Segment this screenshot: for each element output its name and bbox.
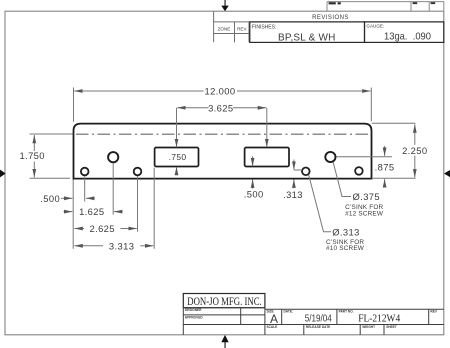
svg-text:#10 SCREW: #10 SCREW: [326, 245, 365, 252]
dim 2.625: [74, 176, 137, 231]
slot cutout left: [155, 148, 199, 167]
dim .500 left: [61, 176, 95, 249]
svg-text:.875: .875: [375, 161, 395, 172]
border centering marker top: [221, 0, 228, 11]
svg-text:APPROVED: APPROVED: [185, 315, 204, 319]
svg-text:REV: REV: [430, 310, 437, 314]
svg-text:DESIGNER: DESIGNER: [185, 308, 202, 312]
svg-text:DON-JO MFG. INC.: DON-JO MFG. INC.: [187, 296, 262, 308]
leader and note hole dia .375: [333, 162, 351, 196]
gauge box: [365, 22, 444, 43]
cropped revision row text remnants: [329, 2, 436, 4]
dim .750 slot height: [176, 167, 178, 175]
svg-text:3.625: 3.625: [208, 102, 233, 113]
centerline (dash-dot): [76, 133, 369, 135]
svg-text:1.625: 1.625: [79, 206, 104, 217]
svg-text:BP,SL & WH: BP,SL & WH: [278, 32, 336, 43]
svg-text:.500: .500: [40, 193, 60, 204]
svg-text:GAUGE:: GAUGE:: [366, 24, 384, 29]
svg-text:13ga. .090: 13ga. .090: [384, 32, 431, 43]
title block grid: [183, 308, 444, 335]
hole small 3: [134, 168, 142, 176]
svg-text:2.250: 2.250: [402, 145, 427, 156]
svg-text:FL-212W4: FL-212W4: [358, 312, 401, 324]
svg-text:REV: REV: [237, 26, 247, 31]
border centering marker left: [0, 170, 6, 178]
svg-text:#12 SCREW: #12 SCREW: [345, 210, 384, 217]
svg-text:PART NO.: PART NO.: [339, 310, 354, 314]
svg-text:DATE:: DATE:: [284, 310, 294, 314]
revisions table grid: [214, 11, 444, 42]
dim 3.313: [74, 168, 154, 249]
svg-text:3.313: 3.313: [109, 240, 134, 251]
svg-text:1.750: 1.750: [19, 150, 44, 161]
dim .875: [337, 146, 416, 188]
slot cutout right: [245, 148, 289, 167]
svg-text:FINISHES:: FINISHES:: [252, 25, 276, 31]
revisions table cropped top row: [327, 2, 444, 12]
svg-text:.500: .500: [244, 189, 264, 200]
leader and note hole dia .313: [309, 175, 331, 232]
svg-text:5/19/04: 5/19/04: [305, 314, 332, 325]
svg-text:WEIGHT: WEIGHT: [362, 325, 375, 329]
svg-text:ZONE: ZONE: [218, 26, 231, 31]
dim 1.750: [30, 134, 73, 178]
dim .313 (hole to bottom): [294, 160, 302, 189]
title block tiny labels: [185, 308, 438, 329]
svg-text:2.625: 2.625: [89, 223, 114, 234]
svg-text:.313: .313: [283, 189, 303, 200]
hole big 2: [108, 152, 118, 162]
svg-text:.750: .750: [169, 152, 187, 162]
dim 2.250: [372, 123, 416, 177]
plate outline: [74, 124, 372, 179]
dim 3.625: [177, 108, 267, 147]
title block company box: [183, 294, 265, 309]
hole small 1: [81, 168, 89, 176]
border centering marker right: [444, 170, 450, 177]
hole small 4: [302, 168, 310, 176]
dim 12.000: [74, 88, 372, 122]
hole big 5: [325, 152, 335, 162]
svg-text:12.000: 12.000: [204, 86, 235, 97]
svg-text:RELEASE DATE: RELEASE DATE: [306, 325, 330, 329]
svg-text:A: A: [270, 312, 278, 326]
dim 1.625: [64, 163, 123, 214]
border centering marker bottom: [221, 335, 228, 348]
svg-text:SHEET: SHEET: [386, 325, 397, 329]
svg-text:Ø.313: Ø.313: [332, 226, 360, 237]
hole small 6: [355, 167, 363, 175]
svg-text:Ø.375: Ø.375: [353, 191, 381, 202]
svg-text:REVISIONS: REVISIONS: [312, 15, 349, 21]
dim .500 center (slot to bottom): [252, 156, 254, 188]
finishes box: [250, 22, 365, 44]
